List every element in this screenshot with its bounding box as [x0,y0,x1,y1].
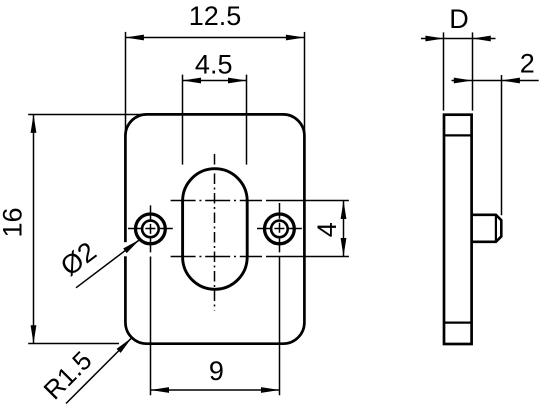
slot bottom arc centerline / 4-dim extension [171,256,262,258]
dimension D extension lines [443,32,445,110]
side view top tangent line [444,134,472,136]
dimension 4 line [343,201,345,257]
dimension 4.5 extension lines [182,75,184,165]
svg-text:4.5: 4.5 [195,50,233,80]
svg-text:16: 16 [0,207,28,237]
side view outline [444,115,472,344]
dimension 9 extension lines [150,257,152,396]
slot (obround cutout) [183,169,248,290]
right hole centermark [257,228,302,230]
svg-text:9: 9 [209,356,224,386]
right hole inner circle [271,221,288,238]
dimension 16 line [33,114,35,343]
boss chamfer line [495,215,497,242]
left hole outer circle [136,214,166,244]
dimension 12.5 extension lines [125,32,127,136]
right hole outer circle [265,214,295,244]
dimension D line [421,38,444,40]
svg-text:D: D [449,4,469,34]
dimension 12.5 line [125,37,304,39]
slot top arc centerline / 4-dim extension [171,200,262,202]
svg-text:4: 4 [312,222,342,237]
dimension 16 extension lines [28,114,147,116]
svg-text:2: 2 [520,48,535,78]
leader R1.5 [66,338,132,404]
dimension 2 line [452,80,473,82]
leader diameter 2 [76,240,140,288]
side view bottom tangent line [444,322,472,324]
left hole centermark [128,228,173,230]
plate outline (front view) [125,114,304,343]
slot vertical centerline [214,154,216,311]
dimension 2 extension line [501,75,503,215]
leader-gap mask on plate left edge [124,242,128,256]
dimension 9 line [151,389,280,391]
svg-text:12.5: 12.5 [189,1,242,31]
dimension 4.5 line [183,80,247,82]
left hole inner circle [142,221,159,238]
boss on side view [472,215,502,242]
